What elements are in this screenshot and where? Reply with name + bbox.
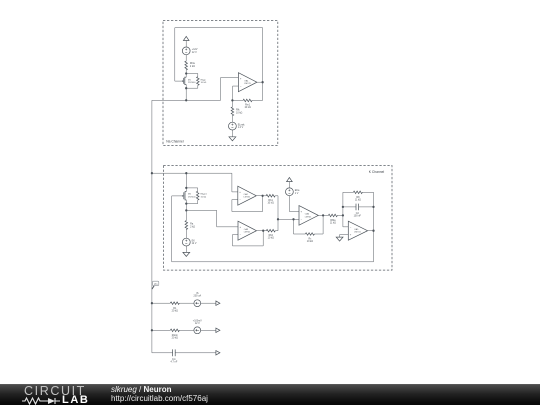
- wire Vm bus vertical: [151, 100, 153, 352]
- svg-text:LM741: LM741: [354, 232, 361, 234]
- svg-text:1 V: 1 V: [295, 192, 299, 195]
- resistor Rb2: [263, 219, 278, 239]
- node drain M2: [185, 187, 187, 189]
- svg-text:200 uA: 200 uA: [194, 295, 202, 298]
- wire left gate column Na: [174, 28, 176, 81]
- node OA2 output: [261, 195, 263, 197]
- wire K top run: [152, 172, 232, 174]
- op-amp OA4: [299, 206, 318, 226]
- ground OA5: [336, 235, 348, 242]
- wire top feedback run Na: [175, 27, 263, 29]
- svg-text:LM741: LM741: [244, 83, 251, 85]
- wire Vstim to terminal: [201, 329, 216, 331]
- node OA3 output: [262, 230, 264, 232]
- svg-text:+: +: [240, 226, 242, 229]
- svg-text:10 kΩ: 10 kΩ: [201, 82, 207, 84]
- voltage source V1 Na: [182, 47, 198, 55]
- op-amp OA1: [238, 73, 257, 92]
- svg-text:20 kΩ: 20 kΩ: [172, 336, 179, 339]
- svg-text:10 kΩ: 10 kΩ: [244, 106, 251, 109]
- wire branch Cm: [152, 352, 173, 354]
- supply flag VDD Na: [183, 36, 189, 47]
- svg-text:Na Channel: Na Channel: [166, 140, 184, 144]
- svg-text:12 V: 12 V: [192, 51, 197, 54]
- CircuitLab logo LAB: [62, 394, 89, 405]
- wire OA3 output: [257, 230, 264, 232]
- op-amp OA3: [238, 221, 257, 240]
- wire OA4 output: [318, 214, 323, 216]
- svg-text:20 kΩ: 20 kΩ: [172, 309, 179, 312]
- svg-text:OA4: OA4: [305, 213, 310, 216]
- resistor Rbyp1 bypass M2: [186, 188, 207, 204]
- wire OA1 output: [257, 81, 263, 83]
- wire OA1 output riser: [262, 28, 264, 101]
- Na Channel enclosure box: [163, 21, 278, 146]
- node cap tap right: [372, 206, 374, 208]
- capacitor C2 integrator: [343, 204, 374, 218]
- svg-text:4.7 nF: 4.7 nF: [171, 360, 178, 363]
- svg-text:2 kΩ: 2 kΩ: [190, 225, 195, 228]
- voltage source ELeak: [229, 122, 246, 130]
- resistor Rlk: [231, 100, 242, 122]
- resistor Rb1: [263, 195, 278, 220]
- wire OA3 feedback loop: [233, 231, 264, 246]
- node inverting Na: [231, 99, 233, 101]
- node source branch: [185, 209, 187, 211]
- svg-text:−: −: [239, 199, 241, 202]
- svg-text:2N7000: 2N7000: [188, 82, 196, 84]
- svg-text:+: +: [350, 234, 352, 237]
- wire summing to OA4: [278, 218, 299, 220]
- svg-text:+: +: [239, 191, 241, 194]
- resistor RNa: [185, 55, 195, 74]
- resistor R8 integrator feedback: [343, 191, 374, 201]
- wire IS to terminal: [201, 302, 216, 304]
- wire ELeak to ground: [231, 130, 233, 137]
- wire K bottom run: [172, 261, 374, 263]
- svg-text:11 kΩ: 11 kΩ: [355, 198, 361, 201]
- svg-text:−: −: [350, 226, 352, 229]
- svg-text:Vm: Vm: [154, 284, 158, 286]
- K Channel enclosure box: [163, 166, 392, 271]
- node OA4 feedback tap: [292, 218, 294, 220]
- op-amp OA5: [348, 221, 367, 240]
- wire drain column M2: [185, 173, 187, 188]
- op-amp OA2: [238, 186, 256, 205]
- wire integrator output riser: [373, 231, 375, 262]
- wire integrator right column: [373, 192, 375, 230]
- svg-text:−: −: [240, 85, 242, 88]
- CircuitLab logo schematic squiggle: [22, 396, 88, 405]
- svg-text:K Channel: K Channel: [369, 170, 385, 174]
- svg-text:12 V: 12 V: [192, 242, 197, 245]
- wire EK to ground: [185, 246, 187, 252]
- wire to OA3 noninverting: [186, 210, 238, 226]
- resistor Rbyp bypass M1: [186, 74, 206, 89]
- wire Vm run Na: [152, 99, 221, 101]
- node Vm tap K: [151, 172, 153, 174]
- resistor R1: [152, 302, 194, 312]
- svg-text:+: +: [240, 77, 242, 80]
- svg-text:1.2 V: 1.2 V: [238, 126, 244, 129]
- svg-text:OA2: OA2: [244, 193, 249, 196]
- transistor M2: [172, 188, 197, 204]
- current source IS: [194, 292, 202, 306]
- svg-text:10 kΩ: 10 kΩ: [307, 240, 314, 243]
- svg-text:OA5: OA5: [354, 228, 359, 231]
- svg-text:10 kΩ: 10 kΩ: [268, 237, 275, 240]
- Na Channel title: [166, 140, 184, 144]
- resistor Rstim: [152, 329, 194, 339]
- svg-text:10 kΩ: 10 kΩ: [267, 202, 274, 205]
- svg-text:10 kΩ: 10 kΩ: [236, 111, 243, 114]
- svg-text:11 kΩ: 11 kΩ: [330, 221, 336, 224]
- wire gate column K: [171, 196, 173, 262]
- capacitor Cm: [171, 349, 216, 363]
- footer bar: [0, 384, 540, 405]
- node RMa join: [342, 214, 344, 216]
- wire OA2 output: [256, 195, 262, 197]
- wire OA5 output: [368, 230, 374, 232]
- svg-text:−: −: [240, 234, 242, 237]
- resistor Ra: [185, 210, 195, 238]
- CircuitLab logo text: [24, 384, 86, 398]
- node cap tap left: [342, 206, 344, 208]
- wire to OA1 noninverting: [221, 78, 239, 101]
- node source M1: [185, 87, 187, 89]
- wire to OA2 noninverting: [232, 173, 238, 192]
- node OA5 output: [372, 230, 374, 232]
- supply flag EK1: [287, 178, 293, 188]
- svg-text:LM741: LM741: [305, 216, 312, 218]
- node branch Vstim: [151, 329, 153, 331]
- svg-text:2 kΩ: 2 kΩ: [190, 65, 195, 68]
- svg-text:LM741: LM741: [244, 232, 251, 234]
- voltage source Vstim: [193, 319, 202, 333]
- wire OA1 inverting stub: [233, 86, 239, 100]
- node OA4 output: [322, 214, 324, 216]
- K Channel title: [369, 170, 385, 174]
- resistor RMa: [323, 214, 343, 224]
- svg-text:LM741: LM741: [244, 197, 251, 199]
- node drain run tap: [185, 172, 187, 174]
- terminal Cm: [216, 351, 220, 355]
- ground K left: [183, 252, 190, 256]
- wire EK1 to OA4 noninverting: [289, 196, 299, 212]
- wire integrator input column: [343, 192, 348, 227]
- wire source M2 down: [185, 204, 187, 211]
- svg-text:2N7000: 2N7000: [188, 196, 196, 198]
- voltage source EK1: [286, 188, 300, 196]
- svg-text:−: −: [301, 218, 303, 221]
- voltage source EK: [182, 238, 197, 246]
- node summing: [277, 218, 279, 220]
- net flag Vm: [152, 281, 159, 289]
- wire source M1 to Vm: [185, 88, 187, 100]
- resistor Rx feedback OA4: [294, 215, 324, 243]
- svg-text:12 V: 12 V: [195, 322, 200, 325]
- terminal Vstim: [216, 328, 220, 332]
- footer titles: [111, 385, 171, 394]
- svg-text:OA1: OA1: [244, 80, 249, 83]
- node drain M1: [185, 72, 187, 74]
- node source M2: [185, 202, 187, 204]
- terminal IS: [216, 301, 220, 305]
- svg-text:OA3: OA3: [244, 228, 249, 231]
- svg-text:100 nF: 100 nF: [354, 215, 362, 218]
- resistor Rm1 feedback: [232, 99, 262, 109]
- node branch IS: [151, 302, 153, 304]
- ground Na: [229, 137, 236, 141]
- svg-text:10 kΩ: 10 kΩ: [201, 196, 207, 198]
- node Vm Na: [185, 99, 187, 101]
- transistor M1: [175, 74, 196, 89]
- svg-text:+: +: [301, 211, 303, 214]
- node OA1 output: [261, 81, 263, 83]
- wire OA2 feedback loop: [232, 196, 263, 212]
